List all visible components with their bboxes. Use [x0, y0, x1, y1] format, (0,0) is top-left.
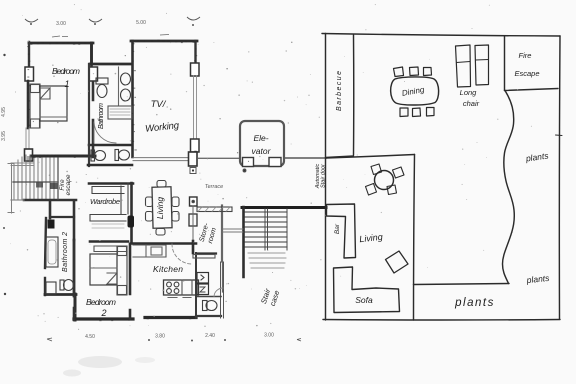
wc toilet right bowl — [119, 150, 130, 160]
wall bedroom1 bottom — [31, 155, 95, 158]
bath1 toilet bowl — [97, 85, 107, 98]
terrace outer top — [322, 34, 560, 37]
living chair top — [157, 181, 166, 188]
svg-text:vator: vator — [252, 146, 272, 156]
dim mark bottom d — [224, 339, 226, 341]
elevator box — [240, 121, 284, 166]
staircase stringer — [265, 209, 268, 250]
dim arc 2 — [89, 19, 102, 22]
barbecue divider — [353, 35, 355, 155]
wc2 toilet tank — [203, 301, 208, 311]
fire-escape right border — [57, 158, 59, 199]
store bottom shelf — [193, 255, 215, 259]
dim arc 1 — [25, 19, 38, 22]
round chair nw — [371, 164, 382, 175]
living chair left2 — [146, 212, 153, 222]
dim dot 1 — [30, 23, 32, 25]
svg-text:3.80: 3.80 — [155, 334, 165, 340]
round table — [375, 171, 394, 190]
svg-text:Ele-: Ele- — [253, 133, 268, 143]
pillar corridor — [189, 152, 198, 166]
staircase treads — [245, 212, 287, 247]
plants horizontal border — [414, 284, 510, 285]
kitchen door arc dashed — [172, 244, 192, 264]
svg-text:2.40: 2.40 — [205, 333, 215, 339]
wardrobe top wall — [89, 182, 133, 185]
long chair 1 line — [457, 62, 471, 63]
building bottom wall wc — [196, 315, 221, 317]
living chair bottom — [156, 229, 165, 236]
bath1 sink lower — [121, 89, 131, 101]
wardrobe hatch — [92, 224, 124, 228]
svg-text:chair: chair — [463, 99, 480, 108]
svg-text:Escape: Escape — [514, 69, 539, 78]
bed2 headboard strip — [117, 246, 127, 295]
svg-text:Living: Living — [155, 197, 165, 219]
svg-text:Bar: Bar — [334, 223, 341, 234]
kitchen stove burners — [167, 282, 179, 293]
bedroom2 closet shelf — [94, 246, 127, 252]
appliance box2 — [197, 284, 209, 295]
wall connector bedroom1-bath — [90, 43, 93, 64]
corridor line living top — [133, 158, 190, 161]
round chair sw — [366, 184, 377, 196]
wc toilet left bowl — [95, 151, 106, 161]
elevator door left — [243, 158, 254, 167]
corridor line elevator to terrace — [284, 157, 326, 159]
building bottom wall bedroom2 — [74, 317, 133, 320]
wc2 toilet bowl — [206, 301, 217, 311]
bath1 sink counter line — [118, 67, 120, 105]
living chair left1 — [146, 197, 153, 207]
round chair se — [387, 185, 397, 195]
bed2 pillow fold — [107, 273, 117, 284]
dim arc 3 — [187, 17, 200, 20]
wardrobe right wall — [130, 183, 133, 243]
svg-text:3.00: 3.00 — [56, 21, 66, 27]
dining table oval — [391, 77, 439, 105]
wc top wall — [196, 296, 221, 298]
plants wavy line — [503, 91, 515, 284]
svg-text:Bedroom: Bedroom — [86, 297, 116, 307]
svg-text:TV/: TV/ — [151, 99, 167, 110]
fire-escape hatch top wall — [33, 155, 76, 158]
window pillar TV right bottom — [191, 139, 200, 152]
wardrobe door leaf — [128, 216, 135, 228]
kitchen counter top — [133, 245, 166, 257]
hall door leaf — [48, 220, 55, 229]
svg-text:3.00: 3.00 — [264, 333, 274, 339]
long chair 2 — [475, 45, 489, 85]
store pillar dot — [192, 200, 194, 202]
svg-text:3.95: 3.95 — [1, 131, 7, 141]
fire escape box bottom — [505, 89, 559, 91]
wall TV top — [131, 40, 197, 43]
bath1 shower inner lines — [110, 109, 130, 115]
svg-text:Fire: Fire — [519, 51, 532, 60]
svg-text:Stair door: Stair door — [321, 163, 327, 188]
dim mark top a — [52, 36, 68, 37]
bed1 mattress — [40, 86, 67, 121]
hall wall right — [73, 201, 76, 240]
store pillar — [190, 197, 198, 206]
kitchen top wall — [131, 242, 196, 245]
bath1 toilet tank — [96, 78, 108, 84]
fire-escape hatch bottom wall — [24, 199, 76, 202]
round chair ne — [393, 167, 405, 178]
pillar base dot — [192, 169, 194, 171]
terrace outer left — [324, 34, 326, 321]
pier bedroom1 left upper — [25, 67, 34, 81]
dim left dot b — [3, 227, 5, 229]
store shelf long — [197, 207, 232, 212]
kitchen right wall upper — [221, 205, 223, 262]
bathroom2 sink box — [46, 282, 56, 294]
appliance box2 glyph — [200, 287, 205, 292]
bed2 mattress — [90, 254, 117, 285]
kitchen handles — [168, 297, 191, 299]
bathroom2 toilet tank — [60, 280, 64, 290]
barbecue bottom — [326, 156, 354, 158]
svg-text:5.00: 5.00 — [136, 20, 146, 26]
bed2 blanket line — [90, 267, 117, 269]
wall wc row bottom — [88, 164, 132, 167]
window bedroom1 left — [26, 128, 29, 151]
fire-escape hatch dark blobs — [36, 183, 43, 188]
bathroom2 wall right — [73, 240, 76, 296]
living chair right2 — [172, 212, 179, 222]
bathroom2 tub inner — [48, 240, 56, 264]
dining chair t1 — [394, 67, 404, 77]
svg-text:escape: escape — [65, 174, 72, 195]
svg-text:4.50: 4.50 — [85, 334, 95, 340]
living table — [152, 187, 172, 228]
svg-text:1: 1 — [64, 79, 69, 89]
sofa L — [334, 267, 400, 313]
staircase top dark line — [242, 206, 326, 209]
svg-text:Long: Long — [460, 88, 478, 97]
living chair right1 — [172, 197, 179, 207]
bed1 nightstand top — [31, 85, 40, 93]
svg-text:Bathroom 2: Bathroom 2 — [62, 232, 69, 272]
store shelf hatch — [198, 207, 230, 212]
bar counter — [327, 204, 356, 258]
dim mark bottom b — [148, 339, 150, 341]
scan smudges bottom — [63, 356, 155, 377]
bedroom2 left wall — [73, 240, 76, 320]
bed1 pillow fold — [40, 88, 50, 99]
svg-text:Wardrobe: Wardrobe — [90, 197, 120, 206]
bath1 sink upper — [121, 73, 131, 85]
fire-escape hatch mid line — [13, 181, 58, 183]
store tall box — [189, 214, 197, 226]
long chair 1 — [456, 45, 471, 87]
wall wc row left — [88, 64, 90, 166]
svg-text:2: 2 — [100, 308, 106, 318]
svg-text:Bathroom: Bathroom — [98, 103, 105, 129]
svg-text:Sofa: Sofa — [355, 295, 373, 305]
fire escape box left — [504, 36, 506, 91]
wc left wall — [195, 253, 197, 318]
terrace outer right — [558, 36, 561, 319]
hall wall left — [49, 201, 52, 218]
svg-text:Bedroom: Bedroom — [52, 66, 80, 76]
dim left dot a — [3, 54, 5, 56]
dim mark bottom c — [191, 340, 193, 342]
dining chair t2 — [410, 67, 419, 76]
wardrobe closet right strip — [121, 183, 128, 214]
bed2 nightstand top — [118, 247, 127, 256]
dim mark top b — [160, 34, 169, 37]
wall bathroom top — [90, 63, 132, 66]
wall bathroom bottom — [89, 144, 132, 147]
pier bedroom1 right — [89, 67, 98, 81]
pier bedroom1 left bottom — [25, 149, 33, 161]
staircase outer left wall — [222, 205, 224, 292]
store wall piece dark — [192, 241, 195, 253]
kitchen island divider — [182, 280, 192, 295]
kitchen right wall lower — [221, 262, 224, 318]
appliance box1 — [197, 273, 209, 284]
svg-text:Kitchen: Kitchen — [153, 264, 183, 274]
dim dot 2 — [94, 23, 96, 25]
dim mark bottom e — [297, 339, 301, 342]
wardrobe closet bottom — [90, 215, 126, 222]
kitchen counter divider — [145, 245, 147, 257]
fire-escape hatch bottom light — [11, 199, 24, 201]
bath1 door jamb — [93, 122, 95, 143]
bathroom2 toilet bowl — [64, 280, 74, 291]
dining chair b2 — [413, 108, 421, 117]
bath1 shower tub — [108, 106, 132, 119]
pillar base square — [190, 168, 196, 174]
wall bedroom1 left mid — [27, 81, 30, 128]
store vertical line — [192, 206, 194, 254]
long chair 2 line — [476, 59, 489, 62]
outer wall left lower — [74, 294, 77, 320]
bed1 headboard strip — [30, 84, 40, 128]
fire-escape hatch top light line — [11, 163, 33, 166]
building bottom wall kitchen — [145, 316, 196, 319]
svg-text:Barbecue: Barbecue — [336, 71, 343, 111]
kitchen counter sink — [151, 247, 162, 255]
dining chair b1 — [400, 108, 408, 117]
kitchen island outline — [164, 280, 199, 295]
dim left dot c — [4, 293, 6, 295]
wall bedroom1 top — [29, 42, 93, 45]
scan noise speckles — [10, 4, 532, 330]
upper terrace bottom border — [326, 155, 415, 159]
window TV right — [194, 76, 197, 140]
hall wall horizontal — [50, 216, 74, 218]
bed2 nightstand bottom — [118, 286, 127, 295]
svg-text:4.95: 4.95 — [1, 107, 7, 117]
window pillar TV right top — [191, 63, 200, 76]
wall TV left — [131, 41, 134, 157]
wall bedroom1 left upper — [28, 42, 30, 67]
inner vertical border — [414, 155, 415, 321]
elevator door right — [269, 158, 281, 167]
bed1 nightstand bottom — [31, 119, 40, 128]
wc toilet left tank — [91, 150, 95, 161]
wall TV right lower — [194, 152, 196, 158]
dim dot 3 — [192, 24, 194, 26]
staircase right rail — [286, 209, 288, 250]
dining chair b3 — [427, 108, 435, 117]
staircase lower landing marks — [248, 253, 286, 268]
fire-escape left bracket — [8, 163, 14, 213]
bathroom2 wall bottom — [45, 293, 76, 296]
fire-escape hatch box — [14, 155, 54, 199]
corridor line to elevator — [198, 157, 240, 159]
wardrobe closet top — [92, 187, 124, 194]
wall TV right upper — [194, 41, 196, 64]
store door arc — [214, 288, 223, 297]
appliance box1 glyph — [201, 275, 204, 280]
bathroom2 wall left — [45, 218, 46, 295]
terrace outer bottom — [323, 319, 560, 322]
bed1 blanket line — [40, 116, 67, 118]
store-room bottom wall — [196, 252, 216, 254]
bedroom2 right wall — [129, 244, 132, 319]
wc toilet right tank — [115, 150, 119, 161]
footstool tilted — [386, 251, 409, 273]
terrace right tick — [556, 134, 563, 137]
bedroom2 top wall — [90, 240, 128, 243]
staircase left wall — [242, 207, 245, 277]
bathroom2 tub — [46, 237, 58, 267]
svg-text:plants: plants — [454, 297, 495, 309]
dim mark bottom a — [47, 338, 52, 341]
svg-text:Terrace: Terrace — [205, 184, 223, 190]
dining chair t3 — [424, 68, 432, 76]
elevator dot — [243, 169, 246, 172]
wall bedroom1 right — [92, 43, 94, 157]
bath1 door arc — [94, 122, 116, 143]
staircase connector — [223, 229, 243, 232]
